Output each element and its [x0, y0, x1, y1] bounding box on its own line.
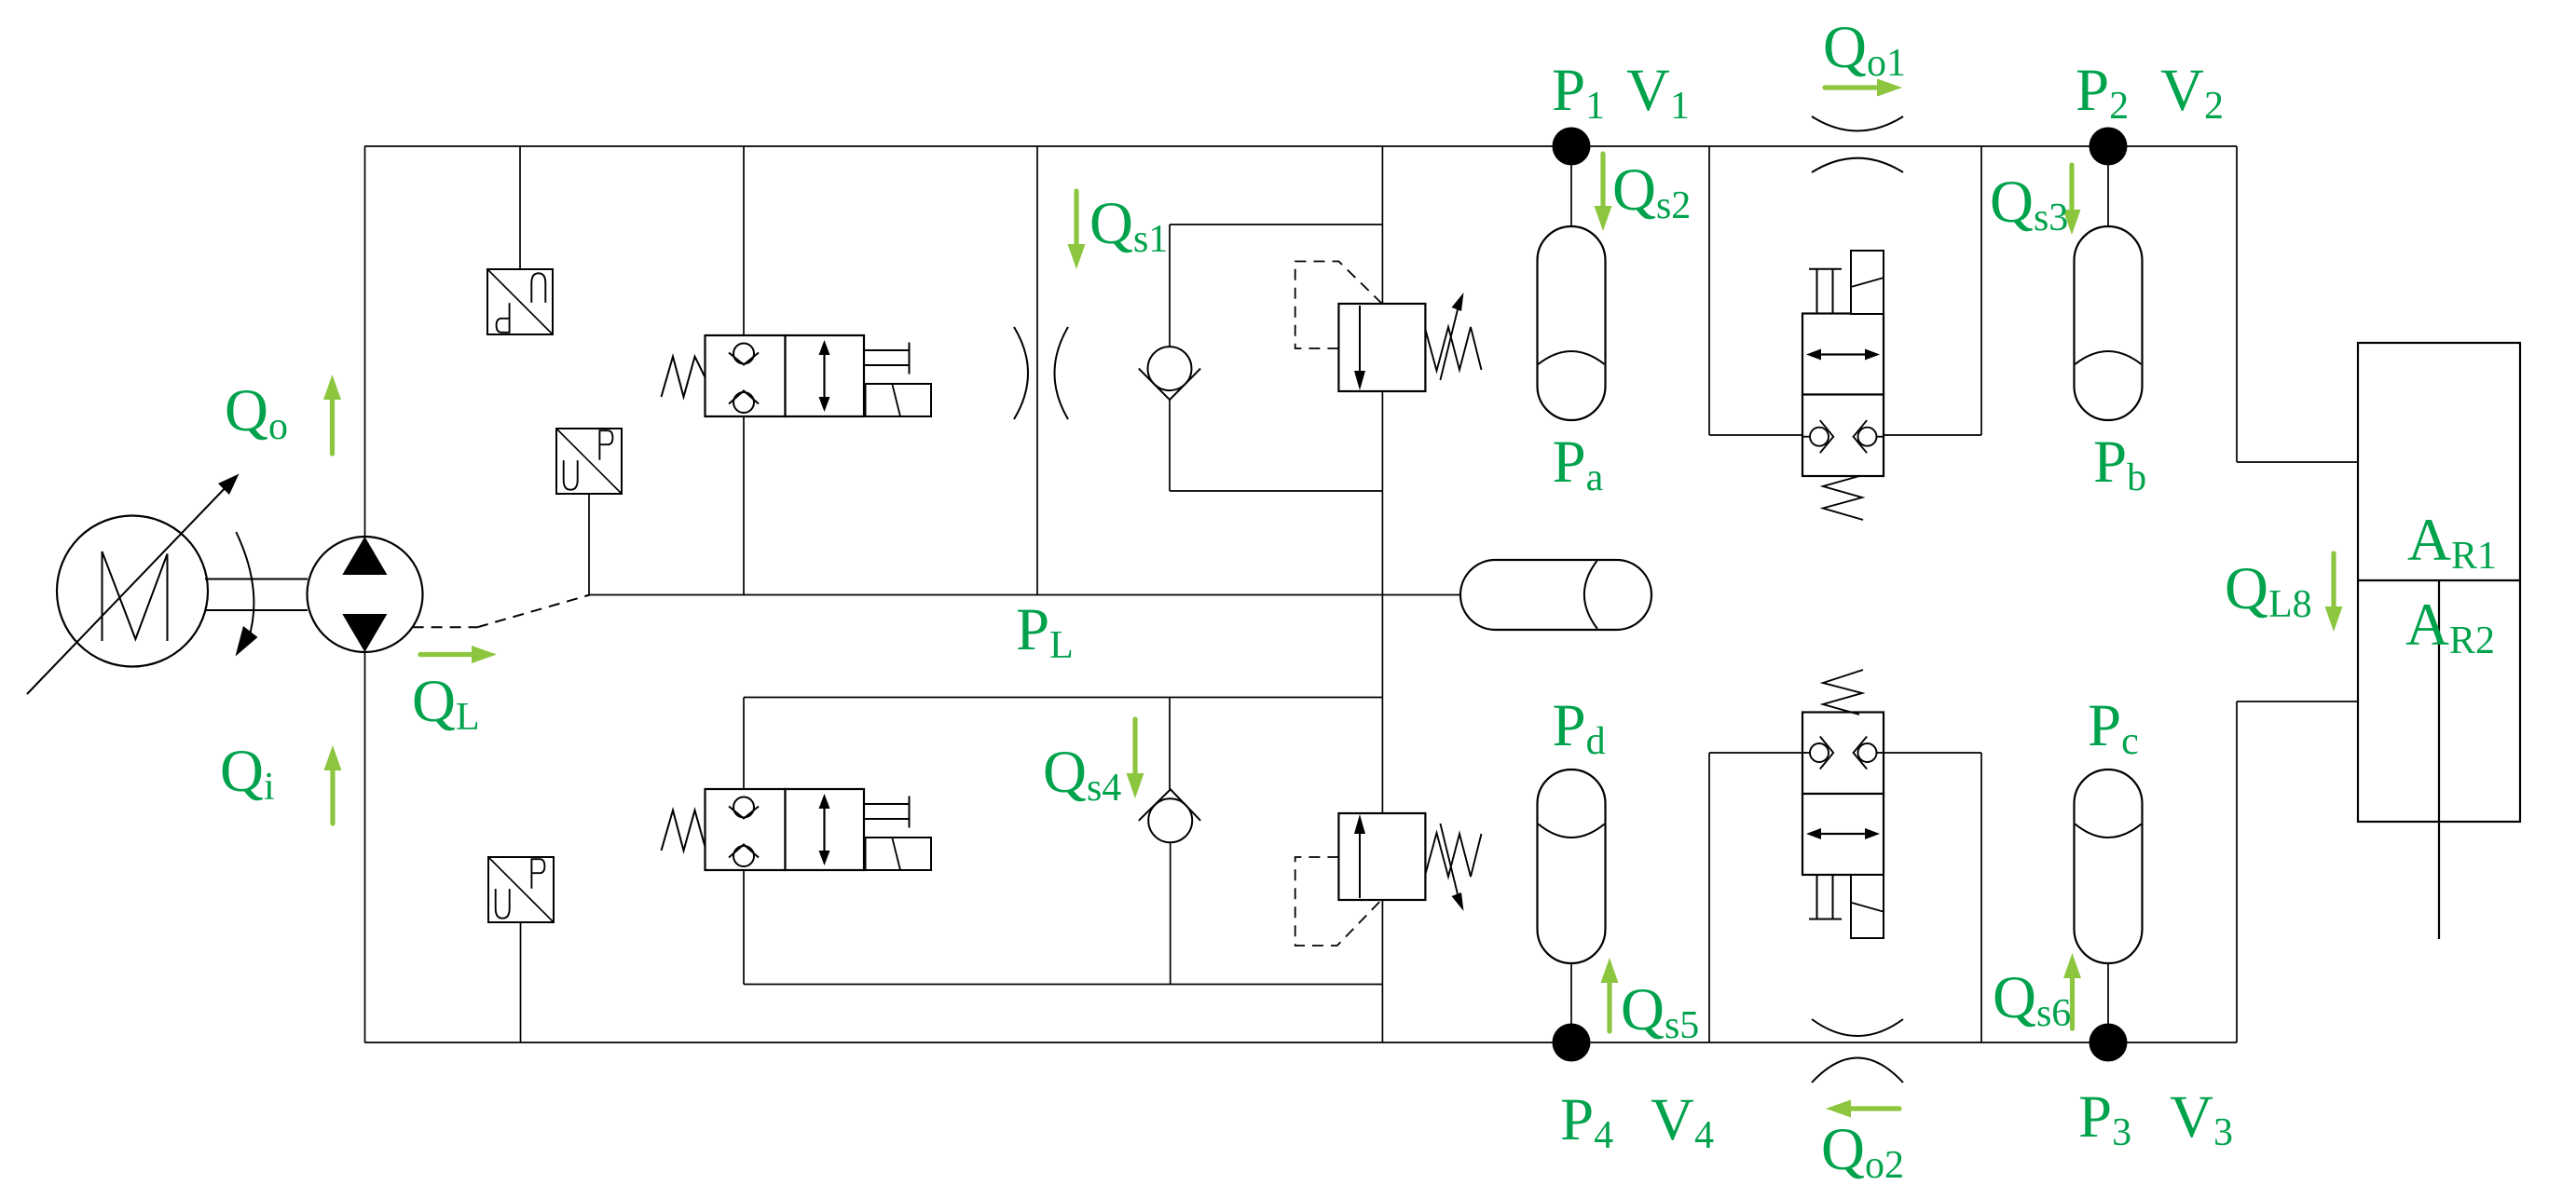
wire orifice branch top	[1036, 146, 1038, 595]
check valve lower	[1139, 789, 1200, 842]
flow arrow Qo	[323, 375, 341, 454]
label QL8	[2225, 555, 2312, 626]
accumulator Pd	[1538, 770, 1606, 963]
wire lower check branch below	[1170, 842, 1172, 984]
wire top bus to cylinder upper port	[2236, 146, 2238, 462]
label Qi	[220, 738, 275, 809]
wire central vertical top	[1381, 146, 1383, 304]
label V2	[2160, 57, 2224, 128]
pilot dashed line lower relief	[1295, 857, 1382, 946]
wire central vertical mid	[1381, 391, 1383, 813]
flow arrow Qs5	[1601, 958, 1619, 1031]
pressure transducer U/P #3	[488, 857, 554, 922]
label QL	[412, 668, 480, 739]
node P4	[1553, 1024, 1591, 1062]
orifice Qo1 (arcs)	[1812, 116, 1903, 172]
flow arrow Qs1	[1068, 191, 1086, 269]
orifice Qs1 (arcs)	[1014, 327, 1068, 419]
wire top-mid valve loop right	[1980, 146, 1982, 435]
relief valve lower (pilot operated)	[1338, 813, 1481, 911]
wire top bus to upper-left valve	[743, 146, 745, 335]
label AR2	[2405, 592, 2495, 662]
node P1	[1553, 128, 1591, 166]
label PL	[1016, 596, 1074, 667]
flow arrow Qi	[324, 745, 342, 824]
wire upper check branch below	[1169, 400, 1171, 491]
wire transducer2 to PL line	[588, 494, 590, 595]
label Qo1	[1823, 14, 1906, 85]
wire top-mid valve port right	[1884, 434, 1981, 436]
flow arrow Qo2	[1826, 1100, 1899, 1118]
wire cylinder upper port	[2237, 461, 2358, 463]
accumulator Pc	[2075, 770, 2143, 963]
wire upper loop top	[1170, 224, 1382, 225]
label P4	[1560, 1086, 1613, 1157]
label V3	[2170, 1083, 2233, 1154]
wire bottom-mid valve port right	[1884, 752, 1981, 754]
wire upper loop bottom	[1170, 490, 1382, 492]
wire top-mid valve port left	[1709, 434, 1802, 436]
shaft	[205, 579, 308, 611]
orifice Qo2 (arcs)	[1812, 1019, 1903, 1083]
valve lower-left 2/2 solenoid	[662, 789, 932, 870]
flow arrow Qs2	[1595, 154, 1612, 231]
wire central vertical bottom	[1381, 900, 1383, 1042]
accumulator Pa	[1538, 226, 1606, 420]
valve top-middle 2/2 bypass	[1802, 251, 1884, 520]
wire bottom-mid valve loop left	[1708, 753, 1710, 1042]
pump displacement control dashed line	[413, 595, 590, 628]
wire bottom-mid valve port left	[1709, 752, 1802, 754]
label Pc	[2088, 692, 2139, 763]
label P1	[1552, 57, 1605, 128]
label Pb	[2093, 429, 2146, 499]
wire P1 to accumulator Pa	[1570, 146, 1572, 226]
label Qs6	[1993, 964, 2071, 1035]
pilot dashed line upper relief	[1295, 262, 1382, 349]
wire upper check branch above	[1169, 225, 1171, 347]
cylinder AR (body)	[2358, 343, 2520, 822]
wire top bus P1-P2 rail	[364, 145, 2237, 147]
label Qs1	[1089, 190, 1168, 261]
pressure transducer U/P #2	[556, 429, 622, 494]
flow arrow Qo1	[1825, 79, 1902, 97]
label P3	[2078, 1083, 2131, 1154]
wire P3 to accumulator Pc	[2107, 963, 2109, 1042]
wire left bus below pump	[364, 652, 366, 1042]
pressure transducer U/P #1 (rotated)	[487, 269, 553, 334]
relief valve upper (pilot operated)	[1338, 293, 1481, 391]
wire lower loop bottom	[744, 984, 1382, 986]
cylinder rod	[2438, 580, 2440, 939]
label Qo2	[1821, 1116, 1904, 1185]
node P3	[2090, 1024, 2128, 1062]
wire P4 to accumulator Pd	[1570, 963, 1572, 1042]
flow arrow Qs3	[2063, 165, 2081, 235]
wire top-mid valve loop left	[1708, 146, 1710, 435]
motor M	[57, 516, 208, 667]
wire transducer3 to bottom bus	[520, 922, 522, 1042]
label Qs3	[1990, 169, 2068, 239]
wire upper-left valve to PL	[743, 416, 745, 595]
wire P2 to accumulator Pb	[2107, 146, 2109, 226]
variable displacement arrow	[27, 474, 240, 695]
flow arrow QL	[420, 646, 497, 663]
label Qo	[225, 377, 288, 448]
wire lower loop top to lower-left valve	[743, 698, 745, 790]
accumulator PL (horizontal)	[1460, 560, 1651, 630]
label Pd	[1553, 692, 1606, 763]
rotation arrow	[236, 532, 258, 657]
accumulator Pb	[2075, 226, 2143, 420]
pump P (bidirectional)	[308, 537, 423, 652]
flow arrow QL8	[2325, 553, 2343, 632]
wire lower loop top	[744, 697, 1382, 699]
wire transducer1 to top bus	[519, 146, 521, 269]
valve upper-left 2/2 solenoid	[662, 335, 932, 416]
label V1	[1626, 57, 1690, 128]
flow arrow Qs4	[1127, 719, 1144, 798]
check valve upper	[1139, 347, 1200, 400]
wire left bus above pump	[364, 146, 366, 537]
label P2	[2076, 57, 2129, 128]
wire bottom-mid valve loop right	[1980, 753, 1982, 1042]
flow arrow Qs6	[2063, 953, 2081, 1028]
node P2	[2090, 128, 2128, 166]
label Pa	[1553, 429, 1604, 499]
label Qs2	[1612, 157, 1691, 227]
valve bottom-middle 2/2 bypass	[1802, 670, 1884, 938]
label V4	[1651, 1086, 1714, 1157]
cylinder piston	[2358, 579, 2520, 581]
wire lower-left valve to lower loop bottom	[743, 870, 745, 985]
wire lower check branch above	[1169, 698, 1171, 790]
wire cylinder lower port	[2237, 701, 2358, 702]
label AR1	[2407, 507, 2497, 578]
label Qs5	[1621, 976, 1699, 1047]
wire PL line	[589, 594, 1460, 596]
wire bottom bus P4-P3 rail	[364, 1042, 2237, 1043]
wire cylinder lower port to bottom bus	[2236, 701, 2238, 1042]
label Qs4	[1043, 739, 1121, 810]
